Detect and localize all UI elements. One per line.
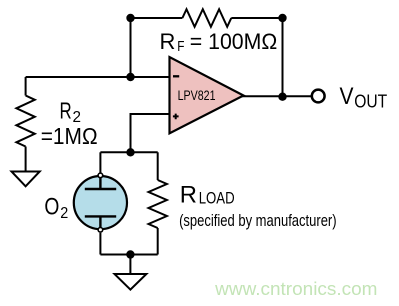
svg-text:V: V <box>340 83 355 110</box>
svg-text:R: R <box>60 98 72 124</box>
svg-text:(specified by manufacturer): (specified by manufacturer) <box>179 212 337 230</box>
svg-text:= 100MΩ: = 100MΩ <box>190 29 277 54</box>
svg-text:LOAD: LOAD <box>199 189 235 207</box>
svg-text:F: F <box>177 39 184 55</box>
svg-text:OUT: OUT <box>354 92 387 112</box>
svg-text:2: 2 <box>60 205 68 222</box>
svg-text:R: R <box>180 182 197 209</box>
svg-text:www.cntronics.com: www.cntronics.com <box>214 278 377 299</box>
svg-text:=1MΩ: =1MΩ <box>41 123 98 149</box>
svg-text:O: O <box>44 194 59 220</box>
svg-text:LPV821: LPV821 <box>178 88 216 103</box>
svg-text:R: R <box>160 29 176 54</box>
